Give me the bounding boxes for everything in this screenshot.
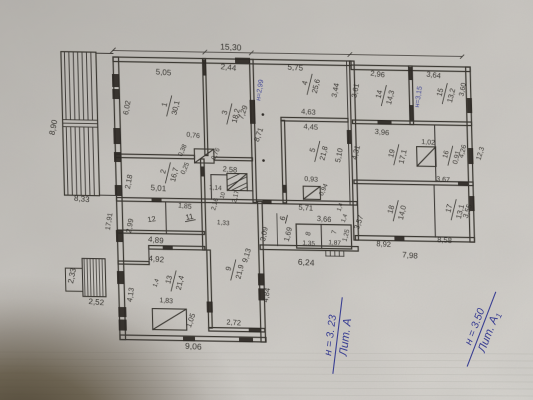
wall rooms1-3 divider	[203, 59, 208, 156]
wall corridor-room5	[281, 120, 287, 203]
svg-text:3,67: 3,67	[436, 176, 450, 184]
svg-text:8,92: 8,92	[376, 239, 391, 249]
door mark wall rooms1-3 top	[203, 60, 207, 76]
door mark bottom wall 1	[183, 337, 195, 342]
wall bottom	[120, 335, 266, 342]
box rooms7-8	[296, 224, 352, 249]
window top wall room3	[235, 58, 250, 64]
door mark annex mid wall	[377, 120, 391, 125]
dot corridor 2	[262, 159, 265, 162]
wall annex top	[351, 65, 470, 72]
room label 15	[433, 81, 458, 107]
dim tick mid b	[249, 51, 253, 55]
svg-text:5,01: 5,01	[150, 183, 166, 193]
wall room13 top	[149, 246, 205, 250]
svg-text:5,71: 5,71	[298, 203, 313, 213]
svg-text:1,87: 1,87	[328, 239, 341, 247]
svg-text:2,72: 2,72	[226, 317, 241, 327]
window room13 left wall b	[119, 319, 127, 330]
wall rooms4-5	[281, 117, 348, 122]
dim tick mid c	[348, 52, 352, 56]
svg-text:2,58: 2,58	[222, 164, 237, 174]
svg-text:4,45: 4,45	[303, 122, 318, 132]
wall room10 left	[210, 175, 213, 200]
door mark south wall	[263, 200, 272, 204]
wall room9 bottom	[209, 328, 265, 332]
blue annotation Lit.A1 h=3.50	[455, 287, 511, 372]
svg-text:8,58: 8,58	[437, 235, 452, 245]
door mark annex mid wall 2	[458, 181, 468, 186]
wall rooms12-11 divider	[165, 202, 168, 234]
svg-text:1,83: 1,83	[159, 297, 173, 305]
stove room10	[227, 173, 247, 190]
svg-text:8,33: 8,33	[74, 194, 91, 205]
window annex right 3	[469, 196, 474, 211]
dim tick mid a	[203, 50, 207, 54]
door mark room13 top wall	[163, 246, 173, 250]
room label 5	[306, 139, 331, 165]
svg-text:12: 12	[147, 214, 157, 224]
porch top-left divider lines	[63, 120, 98, 128]
svg-text:9,06: 9,06	[185, 341, 202, 352]
room label 13	[162, 268, 187, 294]
wall rooms18-17 divider	[434, 185, 435, 237]
dim tick right	[460, 55, 464, 59]
wall room9 left	[207, 250, 212, 328]
window main left wall 1a	[112, 74, 119, 87]
porch top-left bottom link	[99, 194, 116, 196]
room label 4	[298, 72, 323, 98]
porch top-left outline	[61, 52, 100, 196]
svg-text:4,92: 4,92	[148, 254, 165, 265]
window main left wall 2c	[115, 185, 122, 196]
room label 16	[441, 144, 463, 168]
door mark south wall rooms2-12	[152, 198, 162, 202]
wall rooms19-16 divider	[435, 125, 436, 182]
dim tick left	[110, 48, 115, 53]
room label 1	[157, 93, 182, 119]
svg-text:4,63: 4,63	[301, 107, 316, 117]
stoop bottom-left	[65, 268, 83, 291]
door mark corridor-room5 wall	[283, 185, 287, 193]
door line room6	[276, 214, 279, 246]
svg-text:7,98: 7,98	[402, 250, 419, 260]
wall lobby	[118, 261, 149, 265]
door mark room9 left wall	[207, 301, 213, 312]
window main left wall 2b	[114, 152, 121, 162]
window annex right 1	[467, 98, 472, 113]
svg-text:2,52: 2,52	[88, 297, 105, 307]
svg-text:1,35: 1,35	[302, 240, 315, 248]
porch top-left hatching lower	[66, 128, 94, 195]
door mark rooms4-5 right wall	[347, 130, 351, 144]
wall main left	[113, 57, 126, 340]
room label 18	[384, 198, 409, 224]
wall annex bottom	[355, 236, 474, 243]
door mark annex bottom	[394, 236, 404, 241]
wall annex mid1	[352, 120, 471, 126]
svg-text:6,24: 6,24	[298, 257, 315, 268]
wall rooms2 right part	[214, 157, 253, 161]
room label 9	[222, 257, 247, 283]
window main left wall 4	[117, 271, 124, 284]
svg-text:3,96: 3,96	[374, 127, 389, 137]
window room13 left wall a	[118, 307, 126, 317]
door mark rooms14-15 divider top	[408, 67, 413, 80]
room label 3	[218, 101, 243, 127]
wall rooms7-8 divider	[320, 224, 323, 248]
window main left wall 1b	[112, 89, 119, 99]
wall annex right	[466, 67, 475, 242]
door mark bottom wall 2	[239, 338, 253, 343]
svg-text:3,66: 3,66	[317, 214, 332, 224]
window main left wall 2a	[113, 128, 120, 144]
wall lobby vertical	[148, 249, 150, 265]
wall rooms1-2	[115, 154, 194, 159]
wall room10 right lower	[247, 190, 253, 192]
wall room10 top	[211, 174, 227, 176]
wall middle bottom	[260, 245, 358, 251]
wall rooms12-11 bottom	[117, 230, 204, 234]
door mark rooms14-15 divider low	[409, 105, 414, 121]
wall main top	[113, 57, 351, 66]
porch bottom-left outline	[82, 258, 106, 296]
faint paper ruling	[0, 352, 533, 400]
stove rooms1-2	[194, 149, 214, 163]
porch top-left top link	[96, 52, 113, 54]
wall rooms3-4 divider	[250, 59, 257, 202]
room label 17	[442, 197, 467, 223]
room label 2	[156, 160, 181, 186]
porch top-left hatching upper	[64, 53, 92, 120]
room label 19	[385, 142, 410, 168]
window annex right 2	[468, 148, 473, 164]
stove room16	[417, 147, 436, 167]
flue rooms3-4	[250, 100, 256, 124]
dot corridor 1	[262, 113, 265, 116]
blue annotation Lit.A h=3.23	[320, 296, 357, 376]
room label 14	[372, 83, 397, 109]
stove room10 hatching	[227, 173, 247, 190]
svg-text:1,14: 1,14	[209, 184, 222, 192]
svg-text:5,05: 5,05	[156, 67, 172, 77]
wall south of rooms 2-5	[117, 198, 358, 206]
stairs stoop	[326, 251, 344, 257]
window main left wall 3	[116, 230, 123, 242]
room label 6	[277, 213, 288, 223]
porch bottom-left hatching	[84, 259, 103, 296]
window room9 right 1	[258, 273, 265, 285]
wall lower-left right side	[258, 201, 266, 342]
dimension line top	[113, 51, 462, 57]
wall annex mid2	[354, 180, 473, 186]
wall annex left	[350, 61, 359, 240]
window room9 right 2	[258, 288, 265, 300]
svg-text:1,33: 1,33	[217, 219, 230, 227]
room label 11	[184, 211, 196, 222]
svg-text:15,30: 15,30	[220, 41, 242, 52]
svg-text:1,02: 1,02	[421, 139, 435, 147]
wall corridor x200	[201, 159, 207, 250]
stove room5	[303, 186, 320, 199]
door mark room9 bottom wall	[249, 328, 261, 333]
stove room13	[152, 309, 187, 331]
svg-text:0,93: 0,93	[304, 176, 318, 184]
wall rooms14-15 divider	[409, 66, 414, 125]
door mark wall corridor x200	[201, 166, 205, 176]
svg-text:5,75: 5,75	[287, 63, 303, 73]
wall rooms4-5 right	[347, 61, 351, 204]
